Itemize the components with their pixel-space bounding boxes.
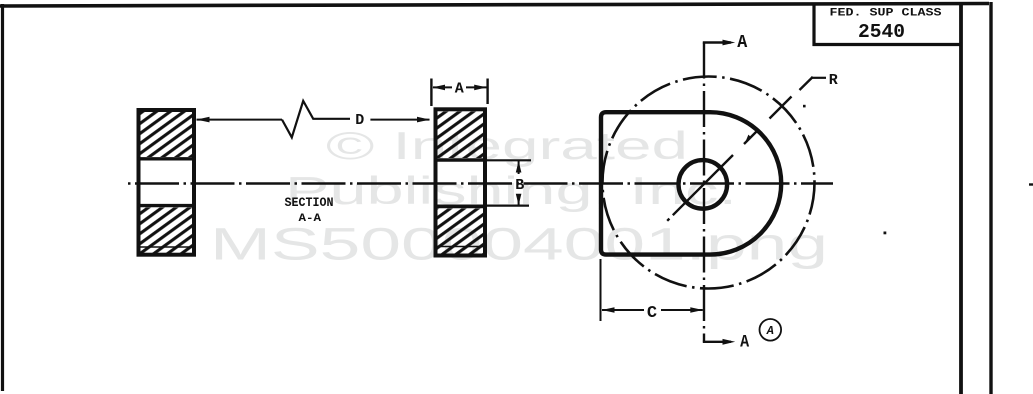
- section line top corner and arrow: [703, 41, 731, 43]
- svg-text:© Integrated: © Integrated: [326, 125, 688, 168]
- svg-text:A: A: [740, 333, 749, 353]
- section cutting line vertical: [703, 43, 705, 342]
- svg-text:SECTION: SECTION: [285, 195, 334, 210]
- hole circle: [679, 160, 728, 209]
- dim B line bottom segment with arrow: [518, 194, 520, 205]
- svg-text:A-A: A-A: [299, 213, 322, 225]
- left block divider 2: [137, 204, 196, 207]
- frame top border: [0, 4, 989, 7]
- centerline stray dash at right edge: [1029, 183, 1033, 185]
- phantom circle: [603, 77, 815, 289]
- dim B bottom extension line: [437, 205, 529, 207]
- diagonal arrowhead at arc: [745, 130, 758, 143]
- dim D break symbol: [282, 101, 350, 137]
- right block hatch bottom band: [437, 209, 484, 254]
- diagonal radius dash through phantom crossing: [770, 97, 792, 119]
- stray dot near R leader: [803, 105, 806, 108]
- R leader horizontal: [811, 77, 826, 79]
- dim D line left segment with arrow: [197, 119, 283, 121]
- dim C line right segment with arrow: [661, 309, 703, 311]
- diagonal radius dash to leader bend: [800, 77, 813, 90]
- diagonal radius centerline dot: [667, 219, 669, 221]
- dim B line top segment with arrow: [518, 161, 520, 174]
- title box bottom edge: [813, 43, 963, 46]
- svg-text:2540: 2540: [858, 21, 905, 43]
- left block thin line near bottom: [137, 246, 196, 248]
- diagonal radius arrow shaft: [744, 131, 757, 144]
- frame inner right vertical: [959, 5, 963, 394]
- svg-text:A: A: [455, 81, 464, 98]
- svg-text:MS500004001.png: MS500004001.png: [210, 219, 828, 270]
- left block hatch top band: [140, 112, 193, 157]
- svg-text:C: C: [647, 304, 657, 323]
- dim C line left segment with arrow: [602, 309, 644, 311]
- svg-text:D: D: [355, 112, 364, 129]
- right block hatch top band: [437, 112, 484, 159]
- dim A right extension line: [486, 79, 488, 105]
- svg-text:B: B: [515, 177, 524, 194]
- dim A left extension line: [430, 79, 432, 107]
- right block divider 2: [434, 205, 487, 208]
- dim A line right segment with arrow: [466, 86, 487, 88]
- dim D line right segment with arrow: [370, 119, 429, 121]
- circled A marker: [760, 319, 782, 341]
- section line bottom corner and arrow: [703, 341, 731, 343]
- right block divider 1: [434, 158, 487, 162]
- diagonal radius centerline dash through hole: [673, 155, 733, 215]
- left block hatch bottom band: [140, 208, 193, 254]
- centerline horizontal: [128, 182, 833, 184]
- D-shape outline: [601, 112, 781, 254]
- left block outline: [139, 110, 195, 255]
- svg-text:A: A: [766, 324, 774, 338]
- dim B top extension line: [437, 159, 531, 161]
- title box left edge: [812, 4, 815, 46]
- svg-text:A: A: [737, 32, 748, 53]
- frame left border: [1, 4, 4, 391]
- stray dot right of view: [884, 232, 887, 235]
- frame outer right vertical: [989, 2, 992, 394]
- dim C left extension line: [600, 259, 602, 321]
- dim A line left segment with arrow: [433, 86, 452, 88]
- svg-text:FED. SUP CLASS: FED. SUP CLASS: [830, 8, 942, 20]
- svg-text:R: R: [829, 72, 838, 89]
- right block outline: [436, 109, 486, 255]
- right block thin line near bottom: [434, 246, 487, 248]
- left block divider 1: [137, 157, 196, 160]
